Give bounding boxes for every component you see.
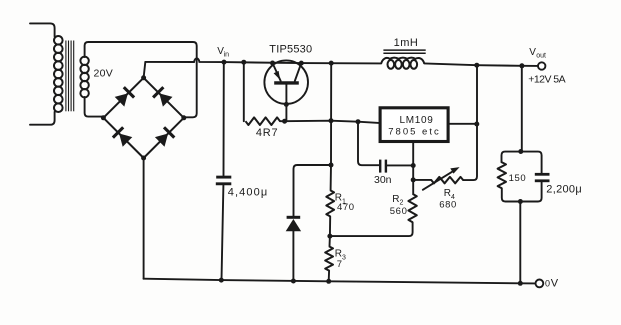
- junction dots: [222, 60, 227, 65]
- resistor R1 470: [326, 190, 334, 216]
- svg-text:out: out: [536, 52, 546, 59]
- svg-text:+12V 5A: +12V 5A: [528, 73, 565, 85]
- svg-text:20V: 20V: [94, 68, 114, 80]
- svg-text:680: 680: [439, 199, 457, 210]
- wire bridge bottom vertex down: [143, 158, 145, 279]
- svg-text:R: R: [444, 188, 451, 199]
- capacitor 4,400u: [223, 62, 225, 175]
- resistor R2 560: [408, 194, 416, 222]
- transformer secondary winding: [80, 57, 88, 65]
- regulator U1 LM109: [380, 108, 448, 142]
- capacitor 2,200u: [521, 152, 542, 173]
- wire secondary top to right vertical: [85, 42, 197, 117]
- resistor 150: [502, 152, 521, 163]
- wire 0V drop: [519, 202, 521, 284]
- resistor R4 680 (variable): [413, 179, 431, 181]
- svg-text:30n: 30n: [374, 174, 392, 186]
- transformer core: [65, 41, 67, 112]
- svg-text:150: 150: [509, 173, 527, 184]
- wire Vin rail (with hop over crossing wire): [145, 58, 381, 63]
- diode D4 (bridge bottom-right): [155, 134, 168, 147]
- svg-text:LM109: LM109: [399, 115, 433, 126]
- wire output rail down to divider: [330, 63, 333, 190]
- svg-text:R: R: [335, 249, 342, 260]
- svg-text:in: in: [224, 51, 230, 58]
- svg-text:TIP5530: TIP5530: [269, 44, 312, 56]
- svg-text:0: 0: [545, 279, 550, 289]
- diode D1 (bridge left-top): [115, 93, 128, 106]
- svg-text:1mH: 1mH: [394, 37, 419, 49]
- wire 0V rail: [144, 279, 536, 284]
- diode D5: [287, 216, 301, 219]
- wire Vout drop: [521, 66, 523, 152]
- wire base node to regulator input: [285, 121, 379, 123]
- diode D3 (bridge bottom-left): [119, 134, 132, 147]
- wire rail inductor to Vout: [424, 63, 538, 66]
- wire bridge top vertex to Vin rail: [144, 62, 146, 78]
- svg-text:4R7: 4R7: [256, 127, 279, 139]
- svg-text:4,400μ: 4,400μ: [228, 187, 268, 199]
- inductor L1 1mH: [381, 58, 424, 64]
- terminal 0V: [536, 280, 544, 288]
- wire bridge arms (diamond): [103, 78, 183, 158]
- svg-text:V: V: [551, 278, 559, 290]
- terminal Vout: [538, 62, 545, 69]
- svg-text:R: R: [392, 194, 399, 205]
- svg-text:2,200μ: 2,200μ: [546, 184, 582, 196]
- wire secondary bottom to bridge left: [85, 97, 104, 117]
- transistor Q1 TIP5530: [264, 60, 308, 104]
- capacitor 30n: [358, 122, 379, 166]
- transformer T1 primary winding: [30, 23, 55, 36]
- svg-text:7805 etc: 7805 etc: [388, 126, 440, 137]
- svg-text:7: 7: [337, 259, 343, 270]
- wire regulator common down: [412, 143, 414, 194]
- wire node to diode D5: [294, 165, 332, 216]
- diode D2 (bridge right-top): [159, 93, 172, 106]
- svg-text:470: 470: [337, 202, 355, 213]
- resistor R3 7: [329, 236, 331, 246]
- resistor 4R7: [243, 62, 245, 121]
- svg-text:560: 560: [390, 206, 408, 217]
- wire regulator output to right vertical: [450, 123, 477, 125]
